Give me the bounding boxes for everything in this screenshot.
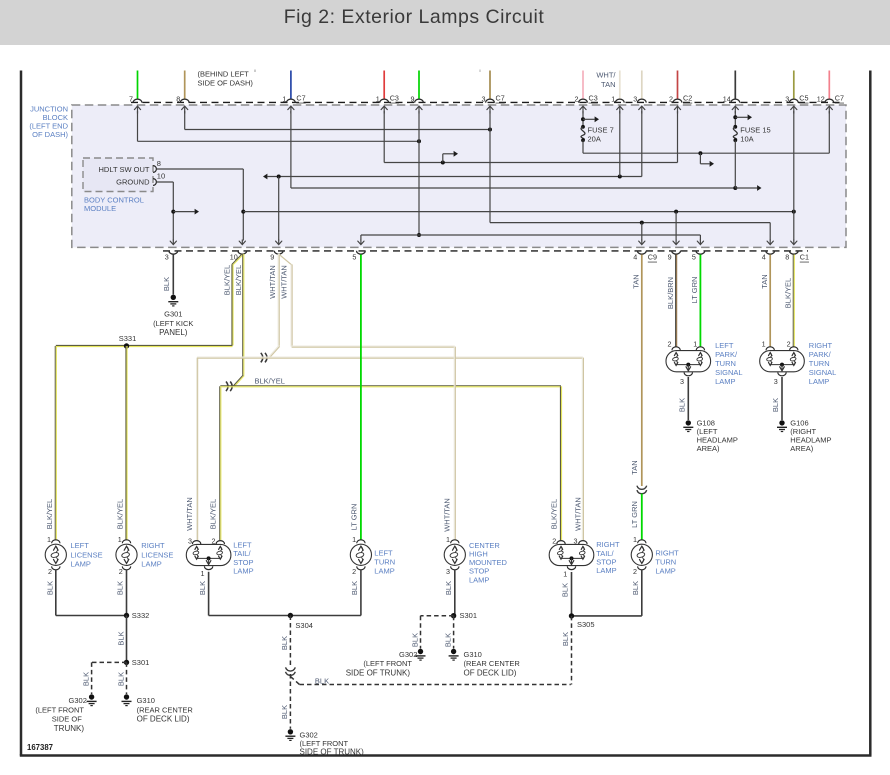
wire: pin 7 to pin 9 vertical link (lt grn feed) bbox=[137, 111, 139, 141]
lamp: LEFT PARK/TURN SIGNAL LAMP bbox=[666, 351, 711, 372]
svg-text:(LEFT FRONT: (LEFT FRONT bbox=[35, 705, 84, 714]
dashed BLK S301 to G310 bbox=[126, 662, 128, 694]
fuse 7 (20A) bbox=[582, 111, 584, 127]
fuse 15 (10A) bbox=[734, 111, 736, 127]
svg-text:BLK: BLK bbox=[198, 581, 207, 595]
svg-text:3: 3 bbox=[482, 94, 486, 103]
svg-text:LAMP: LAMP bbox=[374, 566, 394, 575]
svg-text:3: 3 bbox=[574, 537, 578, 546]
svg-text:BLK: BLK bbox=[46, 581, 55, 595]
svg-text:SIDE OF TRUNK): SIDE OF TRUNK) bbox=[300, 748, 365, 757]
svg-text:4: 4 bbox=[762, 252, 766, 261]
svg-text:WHT/TAN: WHT/TAN bbox=[268, 265, 277, 299]
svg-text:LT GRN: LT GRN bbox=[690, 277, 699, 304]
svg-text:2: 2 bbox=[668, 340, 672, 349]
svg-text:BLK/BRN: BLK/BRN bbox=[666, 277, 675, 309]
dashed BLK S301 to G310 center bbox=[453, 616, 455, 649]
svg-text:SIDE OF: SIDE OF bbox=[52, 715, 82, 724]
junction node rail to bottom pin 9 right bbox=[674, 210, 678, 214]
svg-text:AREA): AREA) bbox=[697, 444, 720, 453]
junction block bottom pin 5 bbox=[696, 251, 705, 255]
svg-text:2: 2 bbox=[119, 567, 123, 576]
top pin 3 wire bbox=[641, 71, 643, 100]
dashed BLK branch to S305 rail bbox=[290, 677, 299, 685]
wire: pin 1 C7 blue feed to fuse 15 bbox=[290, 111, 292, 188]
svg-text:STOP: STOP bbox=[596, 558, 616, 567]
svg-text:BLK/YEL: BLK/YEL bbox=[116, 499, 125, 529]
svg-text:BLK: BLK bbox=[116, 581, 125, 595]
splice S331 bbox=[124, 343, 129, 348]
svg-text:TAN: TAN bbox=[760, 274, 769, 288]
inline connector TAN/LT GRN bbox=[637, 486, 647, 490]
svg-text:9: 9 bbox=[411, 94, 415, 103]
wire BLK pin3 to G301 bbox=[172, 255, 174, 295]
wire WHT/TAN pin9 right branch bbox=[279, 254, 292, 265]
svg-text:C3: C3 bbox=[390, 94, 399, 103]
wire: pin 1 C3 to pin 2 C2 red link bbox=[383, 111, 385, 163]
top pin 3 C7 bbox=[486, 99, 495, 102]
svg-text:RIGHT: RIGHT bbox=[596, 540, 620, 549]
body control module U1 (dashed box) bbox=[83, 158, 153, 192]
top pin 9 wire bbox=[418, 71, 420, 100]
junction block bottom pin 9 bbox=[274, 251, 283, 254]
svg-text:1: 1 bbox=[563, 570, 567, 579]
svg-text:WHT/: WHT/ bbox=[596, 71, 616, 80]
svg-text:BLK: BLK bbox=[280, 636, 289, 650]
svg-text:TURN: TURN bbox=[374, 557, 395, 566]
top pin 9 bbox=[415, 99, 424, 102]
svg-text:RIGHT: RIGHT bbox=[141, 541, 165, 550]
wire: tan rail corner down to bottom pin 4 bbox=[769, 223, 771, 241]
white wire tick 2 bbox=[479, 70, 481, 73]
svg-text:1: 1 bbox=[611, 94, 615, 103]
wire BLK/YEL to left tail lamp pin2 bbox=[219, 386, 221, 540]
top pin 1 wire bbox=[619, 71, 621, 100]
svg-text:WHT/TAN: WHT/TAN bbox=[442, 498, 451, 532]
svg-text:S301: S301 bbox=[460, 611, 478, 620]
svg-text:S305: S305 bbox=[577, 620, 595, 629]
svg-text:SIDE OF DASH): SIDE OF DASH) bbox=[198, 78, 254, 87]
wire BLK right license to S332 bbox=[126, 569, 128, 615]
junction node wht/tan to bottom pin 9 bbox=[277, 175, 281, 179]
svg-text:TAIL/: TAIL/ bbox=[233, 549, 251, 558]
junction block J1 (dashed box, LEFT END OF DASH) bbox=[72, 105, 846, 247]
svg-text:2: 2 bbox=[212, 537, 216, 546]
lamp: RIGHT TURN LAMP bbox=[638, 540, 646, 543]
wire LT GRN pin5 to left park lamp bbox=[699, 255, 701, 347]
svg-text:AREA): AREA) bbox=[790, 444, 813, 453]
svg-text:G302: G302 bbox=[399, 650, 417, 659]
svg-text:C7: C7 bbox=[296, 94, 305, 103]
junction block bottom pin 3 bbox=[169, 251, 178, 255]
svg-text:1: 1 bbox=[376, 94, 380, 103]
svg-text:OF DASH): OF DASH) bbox=[32, 130, 68, 139]
tap on red link bbox=[441, 161, 445, 165]
wire: hdlt sw out rail bbox=[243, 211, 794, 213]
svg-text:BLK/YEL: BLK/YEL bbox=[784, 278, 793, 308]
svg-text:BLK/YEL: BLK/YEL bbox=[234, 265, 243, 295]
ground G310 (rear center of deck lid, center) bbox=[451, 649, 456, 654]
wire BLK left license to S332 bbox=[55, 569, 57, 615]
junction block bottom pin 9 bbox=[672, 251, 681, 255]
wire: wht/tan link rail bbox=[263, 174, 267, 180]
svg-text:LAMP: LAMP bbox=[715, 377, 735, 386]
svg-text:(LEFT FRONT: (LEFT FRONT bbox=[363, 659, 412, 668]
frame border right bbox=[869, 71, 872, 756]
wire WHT/TAN to center stop lamp bbox=[453, 347, 455, 541]
svg-text:HDLT SW OUT: HDLT SW OUT bbox=[99, 165, 150, 174]
wire BLK right park lamp to G106 bbox=[781, 377, 783, 420]
wire: green distribution rail to bottom pins 5 bbox=[361, 234, 701, 236]
junction block bottom pin 4 bbox=[766, 251, 775, 255]
top pin 3 bbox=[637, 99, 646, 102]
wire BLK right turn lamp down bbox=[641, 569, 643, 616]
svg-text:LAMP: LAMP bbox=[469, 575, 489, 584]
svg-text:(BEHIND LEFT: (BEHIND LEFT bbox=[198, 69, 250, 78]
svg-text:4: 4 bbox=[633, 252, 637, 261]
svg-text:S304: S304 bbox=[295, 621, 313, 630]
svg-text:2: 2 bbox=[787, 340, 791, 349]
svg-text:S332: S332 bbox=[132, 611, 150, 620]
svg-text:WHT/TAN: WHT/TAN bbox=[280, 265, 289, 299]
svg-text:LAMP: LAMP bbox=[596, 566, 616, 575]
svg-text:BLK: BLK bbox=[631, 581, 640, 595]
svg-text:TURN: TURN bbox=[655, 557, 676, 566]
lamp: RIGHT LICENSE LAMP bbox=[122, 540, 130, 543]
svg-text:BODY CONTROL: BODY CONTROL bbox=[84, 195, 144, 204]
svg-text:Fig 2: Exterior Lamps Circuit: Fig 2: Exterior Lamps Circuit bbox=[284, 6, 545, 28]
svg-text:G301: G301 bbox=[164, 309, 182, 318]
svg-text:2: 2 bbox=[552, 537, 556, 546]
svg-text:TAN: TAN bbox=[630, 460, 639, 474]
svg-text:14: 14 bbox=[723, 94, 731, 103]
svg-text:LEFT: LEFT bbox=[233, 541, 252, 550]
wire WHT/TAN to right tail lamp pin3 bbox=[581, 358, 583, 541]
svg-text:BLK: BLK bbox=[280, 705, 289, 719]
wire BLK/YEL to right license lamp bbox=[125, 346, 127, 540]
splice S301 left bbox=[124, 660, 129, 665]
svg-text:2: 2 bbox=[352, 567, 356, 576]
dashed BLK S304 down bbox=[289, 616, 291, 667]
svg-text:SIDE OF TRUNK): SIDE OF TRUNK) bbox=[346, 669, 411, 678]
svg-text:LICENSE: LICENSE bbox=[141, 550, 173, 559]
svg-text:G302: G302 bbox=[69, 696, 87, 705]
svg-text:(REAR CENTER: (REAR CENTER bbox=[464, 659, 521, 668]
junction block bottom connector strip bbox=[163, 250, 808, 252]
svg-text:BLK: BLK bbox=[561, 632, 570, 646]
junction block bottom pin 8 C1 bbox=[789, 251, 798, 255]
wire BLK/YEL to right tail lamp pin2 bbox=[559, 386, 561, 540]
svg-text:3: 3 bbox=[774, 377, 778, 386]
svg-text:10A: 10A bbox=[740, 134, 753, 143]
svg-text:LT GRN: LT GRN bbox=[630, 501, 639, 528]
top pin 8 bbox=[180, 99, 189, 103]
svg-text:LEFT: LEFT bbox=[715, 341, 734, 350]
wire BLK/YEL pin10 right branch bbox=[242, 254, 244, 375]
svg-text:SIGNAL: SIGNAL bbox=[715, 368, 743, 377]
wire WHT/TAN pin9 left branch bbox=[277, 254, 279, 346]
junction node rail to pin 3 C5 bbox=[792, 210, 796, 214]
splice S332 bbox=[124, 613, 129, 618]
svg-text:WHT/TAN: WHT/TAN bbox=[185, 497, 194, 531]
wire: pin 3 wht/tan corner bbox=[641, 111, 643, 177]
svg-text:C9: C9 bbox=[648, 253, 657, 262]
inline connector on WHT/TAN bbox=[261, 353, 263, 363]
svg-text:1: 1 bbox=[352, 535, 356, 544]
top pin 1 C3 bbox=[380, 99, 389, 103]
svg-text:G310: G310 bbox=[137, 696, 155, 705]
lamp: RIGHT TAIL/STOP LAMP bbox=[549, 544, 594, 565]
svg-text:STOP: STOP bbox=[233, 558, 253, 567]
svg-text:1: 1 bbox=[446, 535, 450, 544]
top pin 3 C7 wire bbox=[489, 71, 491, 100]
svg-text:20A: 20A bbox=[588, 134, 601, 143]
junction node green distribution bbox=[417, 233, 421, 237]
svg-text:(LEFT KICK: (LEFT KICK bbox=[153, 319, 193, 328]
svg-text:TAIL/: TAIL/ bbox=[596, 549, 614, 558]
ground G310 (rear center of deck lid) bbox=[124, 694, 129, 699]
wire BLK left park lamp to G108 bbox=[687, 377, 689, 420]
svg-text:SIGNAL: SIGNAL bbox=[809, 368, 837, 377]
svg-text:1: 1 bbox=[282, 94, 286, 103]
svg-text:5: 5 bbox=[352, 252, 356, 261]
svg-text:8: 8 bbox=[785, 252, 789, 261]
svg-text:TRUNK): TRUNK) bbox=[54, 724, 85, 733]
top pin 14 wire bbox=[734, 71, 736, 100]
dashed BLK S301 to G302 bbox=[92, 661, 127, 663]
inline connector on BLK/YEL bbox=[226, 382, 228, 392]
svg-text:OF DECK LID): OF DECK LID) bbox=[137, 715, 190, 724]
svg-text:LAMP: LAMP bbox=[141, 560, 161, 569]
svg-text:3: 3 bbox=[785, 94, 789, 103]
svg-text:C7: C7 bbox=[496, 94, 505, 103]
wire: BCM pin 8 hdlt sw out feed bbox=[157, 168, 244, 170]
junction node pins 7/9 bbox=[417, 139, 421, 143]
wire: pin 8 to pin 3 C7 tan link bbox=[184, 111, 186, 130]
white wire tick bbox=[254, 70, 256, 73]
top pin 1 bbox=[615, 99, 624, 102]
svg-text:BLK/YEL: BLK/YEL bbox=[208, 499, 217, 529]
svg-text:2: 2 bbox=[575, 94, 579, 103]
svg-text:TAN: TAN bbox=[632, 274, 641, 288]
top pin 12 C7 bbox=[825, 99, 834, 102]
svg-text:8: 8 bbox=[157, 159, 161, 168]
junction block top connector strip bbox=[131, 101, 843, 103]
svg-text:C3: C3 bbox=[589, 94, 598, 103]
wire WHT/TAN to left tail lamp pin3 bbox=[196, 358, 198, 541]
lamp: LEFT LICENSE LAMP bbox=[52, 540, 60, 543]
tap arrow fuse 15 output bbox=[735, 187, 757, 189]
ground G302 (left front side of trunk, center) bbox=[418, 649, 423, 654]
svg-text:167387: 167387 bbox=[27, 743, 53, 752]
svg-text:BLK: BLK bbox=[162, 277, 171, 291]
svg-text:BLK: BLK bbox=[677, 398, 686, 412]
lamp: LEFT TURN LAMP bbox=[357, 540, 365, 543]
svg-text:S331: S331 bbox=[119, 334, 137, 343]
wire WHT/TAN tail lamp rail bbox=[197, 356, 583, 358]
svg-text:12: 12 bbox=[817, 94, 825, 103]
wire BLK/YEL pin8 C1 to right park lamp bbox=[792, 255, 794, 347]
svg-text:3: 3 bbox=[680, 377, 684, 386]
svg-text:C2: C2 bbox=[683, 94, 692, 103]
svg-text:BLK: BLK bbox=[116, 631, 125, 645]
wire BLK/YEL to left license lamp bbox=[54, 346, 56, 540]
top pin 2 C3 bbox=[579, 99, 588, 103]
junction node hdlt rail bbox=[241, 210, 245, 214]
svg-text:PANEL): PANEL) bbox=[159, 328, 188, 337]
wire: pin 3 C5 vertical to bottom pin 8 C1 bbox=[793, 111, 795, 241]
splice S305 bbox=[569, 613, 574, 618]
BCM pin 8 HDLT SW OUT bbox=[153, 166, 156, 173]
svg-text:3: 3 bbox=[165, 252, 169, 261]
dashed BLK down to G302 bbox=[289, 674, 291, 729]
junction block bottom pin 4 C9 bbox=[637, 251, 646, 255]
svg-text:GROUND: GROUND bbox=[116, 178, 150, 187]
top pin 2 C2 bbox=[673, 99, 682, 103]
dashed BLK S305 down to rail bbox=[571, 616, 573, 685]
svg-text:LAMP: LAMP bbox=[233, 567, 253, 576]
top pin 1 C3 wire bbox=[383, 71, 385, 100]
svg-text:PARK/: PARK/ bbox=[715, 350, 738, 359]
top pin 7 wire bbox=[137, 71, 139, 100]
svg-text:C7: C7 bbox=[835, 94, 844, 103]
svg-text:3: 3 bbox=[633, 94, 637, 103]
dashed BLK S301 to G302 center bbox=[421, 615, 454, 617]
svg-text:BLK: BLK bbox=[443, 633, 452, 647]
svg-text:C1: C1 bbox=[800, 253, 809, 262]
lamp: CENTER HIGH MOUNTED STOP LAMP bbox=[451, 540, 459, 543]
svg-text:BLK: BLK bbox=[116, 672, 125, 686]
top pin 1 C7 bbox=[287, 99, 296, 102]
header banner bbox=[0, 0, 890, 45]
svg-text:BLK: BLK bbox=[561, 583, 570, 597]
wire BLK S332 to S301 bbox=[126, 616, 128, 663]
svg-text:LAMP: LAMP bbox=[71, 560, 91, 569]
svg-text:C5: C5 bbox=[799, 94, 808, 103]
junction block bottom pin 5 bbox=[357, 251, 366, 254]
svg-text:10: 10 bbox=[157, 172, 165, 181]
svg-text:1: 1 bbox=[201, 569, 205, 578]
tap arrow on ground feed bbox=[171, 210, 175, 214]
wire TAN pin4 to right park lamp bbox=[769, 255, 771, 347]
frame border bottom bbox=[20, 754, 872, 757]
wire: BCM pin 10 ground feed bbox=[157, 181, 174, 183]
svg-text:TURN: TURN bbox=[809, 359, 830, 368]
svg-text:BLK: BLK bbox=[82, 672, 91, 686]
wire BLK/YEL S331 rail bbox=[56, 344, 233, 346]
top pin 3 C5 wire bbox=[793, 71, 795, 100]
svg-text:1: 1 bbox=[47, 535, 51, 544]
inline connector on trunk BLK bbox=[286, 667, 296, 671]
ground G106 bbox=[779, 420, 784, 425]
wire BLK/YEL tail lamp rail bbox=[220, 385, 561, 387]
svg-text:BLK: BLK bbox=[410, 633, 419, 647]
svg-text:FUSE 15: FUSE 15 bbox=[740, 125, 770, 134]
svg-text:9: 9 bbox=[270, 252, 274, 261]
junction node tan to bottom pin 4 C9 bbox=[640, 221, 644, 225]
top pin 1 C7 wire bbox=[290, 71, 292, 100]
svg-text:7: 7 bbox=[129, 94, 133, 103]
svg-text:3: 3 bbox=[188, 537, 192, 546]
top pin 2 C3 wire bbox=[582, 71, 584, 100]
top pin 8 wire bbox=[184, 71, 186, 100]
wire BLK/BRN pin9 to left park lamp bbox=[675, 255, 677, 347]
svg-text:BLK: BLK bbox=[350, 581, 359, 595]
wire BLK left turn lamp down bbox=[360, 569, 362, 615]
lamp: LEFT TAIL/STOP LAMP bbox=[186, 544, 231, 565]
svg-text:PARK/: PARK/ bbox=[809, 350, 832, 359]
wire BLK right tail lamp to S305 bbox=[571, 572, 573, 616]
svg-text:1: 1 bbox=[118, 535, 122, 544]
svg-text:LICENSE: LICENSE bbox=[71, 550, 103, 559]
svg-text:2: 2 bbox=[669, 94, 673, 103]
wire: fuse 7 to pin 12 C7 bbox=[582, 140, 584, 153]
wire: pin 3 C7 vertical to tan distribution bbox=[489, 111, 491, 223]
svg-text:BLK/YEL: BLK/YEL bbox=[223, 265, 232, 295]
wire LT GRN pin5 to left turn lamp bbox=[360, 255, 362, 541]
svg-text:LT GRN: LT GRN bbox=[350, 504, 359, 531]
wire LT GRN to right turn lamp bbox=[641, 494, 643, 541]
wire WHT/TAN center stop rail bbox=[292, 345, 455, 347]
svg-text:FUSE 7: FUSE 7 bbox=[588, 125, 614, 134]
tap on fuse7 rail bbox=[698, 151, 702, 155]
svg-text:RIGHT: RIGHT bbox=[809, 341, 833, 350]
junction node tan link bbox=[488, 128, 492, 132]
svg-text:TAN: TAN bbox=[601, 80, 615, 89]
svg-text:BLK/YEL: BLK/YEL bbox=[45, 499, 54, 529]
top pin 2 C2 wire bbox=[677, 71, 679, 100]
BCM pin 10 GROUND bbox=[153, 179, 156, 186]
splice S304 bbox=[288, 613, 293, 618]
junction block bottom pin 10 bbox=[238, 251, 247, 255]
svg-text:RIGHT: RIGHT bbox=[655, 548, 679, 557]
splice S301 center bbox=[451, 613, 456, 618]
svg-text:1: 1 bbox=[762, 340, 766, 349]
ground G108 bbox=[686, 420, 691, 425]
wire BLK/YEL pin10 left branch bbox=[232, 254, 242, 264]
ground G301 bbox=[171, 295, 176, 300]
svg-text:LEFT: LEFT bbox=[71, 541, 90, 550]
svg-text:TURN: TURN bbox=[715, 359, 736, 368]
svg-text:BLK/YEL: BLK/YEL bbox=[550, 499, 559, 529]
wire: pin 9 vertical down to green distribution bbox=[418, 111, 420, 235]
wire TAN pin4 C9 down bbox=[641, 255, 643, 487]
top pin 7 bbox=[133, 99, 142, 102]
svg-text:(REAR CENTER: (REAR CENTER bbox=[137, 705, 194, 714]
wire BLK left tail lamp to S304 bbox=[208, 572, 210, 616]
svg-text:2: 2 bbox=[633, 567, 637, 576]
junction node fuse 15 output bbox=[733, 186, 737, 190]
svg-text:8: 8 bbox=[176, 94, 180, 103]
svg-text:MODULE: MODULE bbox=[84, 204, 116, 213]
svg-text:LAMP: LAMP bbox=[809, 377, 829, 386]
svg-text:OF DECK LID): OF DECK LID) bbox=[464, 669, 517, 678]
svg-text:2: 2 bbox=[48, 567, 52, 576]
svg-text:9: 9 bbox=[668, 252, 672, 261]
svg-text:BLK: BLK bbox=[771, 398, 780, 412]
svg-text:LEFT: LEFT bbox=[374, 548, 393, 557]
svg-text:BLK/YEL: BLK/YEL bbox=[255, 377, 285, 386]
svg-text:BLK: BLK bbox=[315, 677, 329, 686]
svg-text:3: 3 bbox=[446, 567, 450, 576]
frame border left bbox=[20, 71, 23, 756]
top pin 12 C7 wire bbox=[828, 71, 830, 100]
ground G302 (left front side of trunk, middle) bbox=[288, 729, 293, 734]
top pin 14 bbox=[731, 99, 740, 102]
ground G302 (left front side of trunk) bbox=[89, 694, 94, 699]
lamp: RIGHT PARK/TURN SIGNAL LAMP bbox=[760, 351, 805, 372]
svg-text:5: 5 bbox=[692, 252, 696, 261]
